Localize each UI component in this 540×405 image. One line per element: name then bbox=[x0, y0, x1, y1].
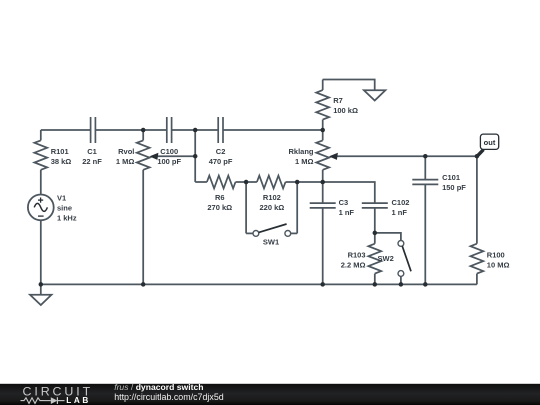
wire top rail left segment bbox=[41, 129, 91, 131]
svg-text:100 kΩ: 100 kΩ bbox=[333, 106, 358, 115]
node C102 / R103 / SW2 bbox=[373, 231, 378, 236]
svg-text:2.2 MΩ: 2.2 MΩ bbox=[341, 260, 366, 269]
wire Rklang wiper to out node bbox=[335, 155, 477, 157]
footer bar bbox=[0, 384, 540, 405]
node SW2 bottom / rail bbox=[399, 282, 404, 287]
svg-text:270 kΩ: 270 kΩ bbox=[207, 203, 232, 212]
svg-text:C101: C101 bbox=[442, 173, 460, 182]
node flag out bbox=[478, 134, 499, 156]
resistor R6 bbox=[207, 176, 236, 212]
resistor R103 bbox=[341, 233, 381, 285]
svg-text:C3: C3 bbox=[339, 198, 349, 207]
svg-text:Rvol: Rvol bbox=[118, 147, 134, 156]
wire Rvol wiper to junction bbox=[156, 155, 196, 157]
capacitor C100 bbox=[157, 117, 181, 166]
switch SW2 bbox=[375, 233, 411, 285]
ground top-right bbox=[364, 90, 386, 100]
wire R6 to R102 bbox=[236, 181, 257, 183]
capacitor C3 bbox=[310, 182, 355, 284]
wire ground rail bbox=[41, 283, 477, 285]
svg-text:R7: R7 bbox=[333, 96, 343, 105]
capacitor C101 bbox=[412, 156, 466, 284]
node top wire / Rvol bbox=[141, 128, 146, 133]
svg-text:38 kΩ: 38 kΩ bbox=[51, 157, 72, 166]
svg-text:470 pF: 470 pF bbox=[209, 157, 233, 166]
svg-text:Rklang: Rklang bbox=[288, 147, 313, 156]
svg-text:C100: C100 bbox=[160, 147, 178, 156]
svg-text:1 kHz: 1 kHz bbox=[57, 214, 77, 223]
voltage source V1 sine bbox=[28, 194, 77, 285]
svg-text:1 MΩ: 1 MΩ bbox=[295, 157, 314, 166]
wire R7 top to ground bbox=[323, 80, 375, 91]
svg-text:C2: C2 bbox=[216, 147, 226, 156]
resistor R102 bbox=[257, 176, 286, 212]
svg-text:22 nF: 22 nF bbox=[82, 157, 102, 166]
svg-text:SW2: SW2 bbox=[378, 254, 394, 263]
svg-text:R102: R102 bbox=[263, 193, 281, 202]
svg-text:150 pF: 150 pF bbox=[442, 183, 466, 192]
node Rvol bottom / rail bbox=[141, 282, 146, 287]
svg-text:R100: R100 bbox=[487, 250, 505, 259]
capacitor C1 bbox=[82, 117, 102, 166]
svg-text:220 kΩ: 220 kΩ bbox=[260, 203, 285, 212]
capacitor C102 bbox=[362, 198, 410, 233]
svg-text:sine: sine bbox=[57, 204, 72, 213]
ground bottom-left bbox=[30, 284, 52, 305]
svg-text:C1: C1 bbox=[87, 147, 97, 156]
potentiometer Rvol bbox=[116, 130, 159, 284]
svg-text:100 pF: 100 pF bbox=[157, 157, 181, 166]
wire C2 to Rklang top node bbox=[223, 129, 323, 131]
resistor R100 bbox=[471, 156, 510, 284]
node Rklang bottom / C3 bbox=[320, 180, 325, 185]
svg-text:R101: R101 bbox=[51, 147, 69, 156]
switch SW1 bbox=[246, 182, 297, 246]
wire Rklang bottom to C102 column bbox=[323, 182, 375, 203]
node R102 / SW1 right bbox=[295, 180, 300, 185]
resistor R101 bbox=[34, 130, 71, 195]
svg-text:1 nF: 1 nF bbox=[339, 208, 355, 217]
resistor R7 bbox=[316, 80, 358, 131]
svg-text:frus / dynacord switch: frus / dynacord switch bbox=[114, 382, 203, 392]
svg-text:out: out bbox=[484, 138, 496, 147]
svg-text:V1: V1 bbox=[57, 194, 66, 203]
svg-text:R103: R103 bbox=[348, 250, 366, 259]
footer title text bbox=[114, 382, 224, 402]
capacitor C2 bbox=[209, 117, 233, 166]
potentiometer Rklang bbox=[288, 130, 337, 182]
wire junction column vertical bbox=[194, 130, 196, 182]
svg-text:R6: R6 bbox=[215, 193, 225, 202]
svg-text:1 nF: 1 nF bbox=[392, 208, 408, 217]
svg-text:http://circuitlab.com/c7djx5d: http://circuitlab.com/c7djx5d bbox=[114, 392, 224, 402]
wire R102 to Rklang bottom bbox=[286, 181, 323, 183]
svg-text:1 MΩ: 1 MΩ bbox=[116, 157, 135, 166]
node C101 bottom / rail bbox=[423, 282, 428, 287]
node C100-C2 junction bbox=[193, 128, 198, 133]
node wiper junction bbox=[193, 154, 198, 159]
wire C1 to C100 bbox=[95, 129, 166, 131]
node C101 top bbox=[423, 154, 428, 159]
node R6 / R102 / SW1 left bbox=[244, 180, 249, 185]
wire junction to R6 bbox=[195, 181, 207, 183]
wire C100 to C2 bbox=[172, 129, 219, 131]
node V1 / ground rail bbox=[39, 282, 44, 287]
node R7 / Rklang / top wire bbox=[320, 128, 325, 133]
node out / R100 top bbox=[475, 154, 480, 159]
node C3 bottom / rail bbox=[320, 282, 325, 287]
svg-text:LAB: LAB bbox=[66, 396, 91, 405]
svg-text:10 MΩ: 10 MΩ bbox=[487, 260, 510, 269]
svg-text:SW1: SW1 bbox=[263, 237, 279, 246]
node R103 bottom / rail bbox=[373, 282, 378, 287]
svg-text:C102: C102 bbox=[392, 198, 410, 207]
CircuitLab logo bbox=[21, 385, 94, 405]
